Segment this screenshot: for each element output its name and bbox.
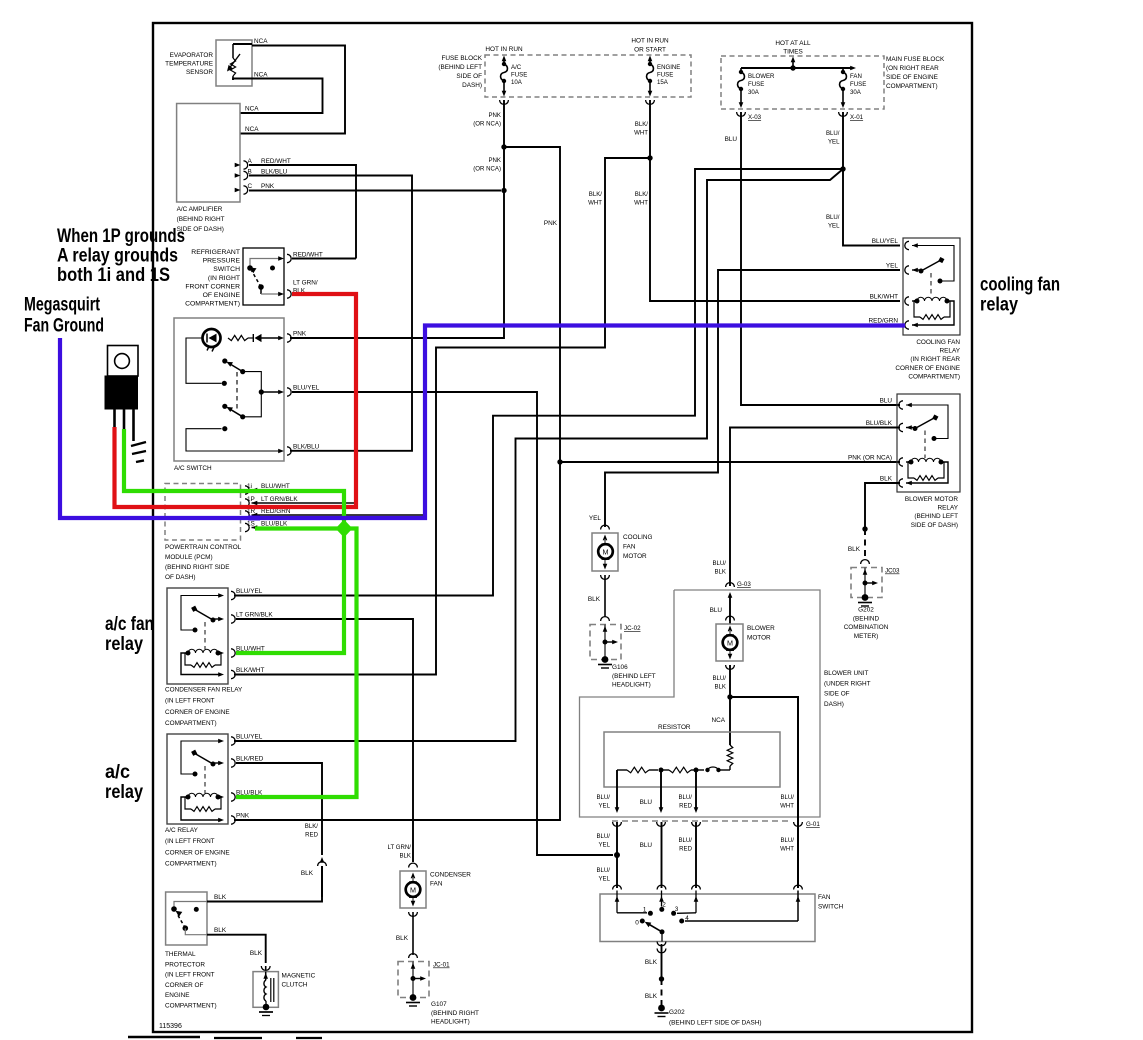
svg-text:A/C AMPLIFIER: A/C AMPLIFIER: [177, 206, 223, 213]
label PNK (OR NCA) at blower relay pin: [848, 455, 892, 462]
transistor legs: [115, 409, 134, 441]
junction blower return: [727, 694, 732, 699]
svg-text:COOLING FAN: COOLING FAN: [916, 339, 960, 346]
svg-text:BLK: BLK: [645, 993, 658, 1000]
wires taps to fan switch: [617, 822, 696, 888]
blower motor bottom connector: [726, 665, 735, 745]
label ENGINE FUSE 15A: [657, 64, 680, 86]
svg-text:BLK/BLU: BLK/BLU: [261, 169, 288, 176]
joint connector JC03: [851, 560, 900, 598]
label PNK at A/C relay: [236, 813, 250, 820]
svg-text:JC03: JC03: [885, 568, 900, 575]
fan switch input connectors: [613, 885, 803, 889]
magnetic clutch box: [253, 972, 278, 1008]
svg-text:NCA: NCA: [245, 106, 259, 113]
label BLOWER UNIT (UNDER RIGHT SIDE OF DASH): [824, 670, 871, 708]
wire BLU/YEL X-01 to cooling fan relay: [843, 112, 900, 246]
A/C fuse 10A: [501, 62, 508, 83]
svg-text:0: 0: [635, 920, 639, 927]
svg-text:G-01: G-01: [806, 821, 820, 828]
A/C relay pin BLU/BLK: [218, 793, 235, 801]
svg-text:OF DASH): OF DASH): [165, 574, 196, 581]
svg-text:BLK: BLK: [714, 684, 726, 691]
svg-text:(IN LEFT FRONT: (IN LEFT FRONT: [165, 698, 215, 705]
svg-text:(IN RIGHT REAR: (IN RIGHT REAR: [910, 356, 960, 363]
wire BLU/YEL branch 1 to condenser fan relay: [234, 169, 843, 596]
svg-text:COMBINATION: COMBINATION: [844, 624, 889, 631]
label BLU/YEL at condenser fan relay: [236, 588, 263, 595]
connector G-03: [726, 581, 752, 588]
svg-text:BLK: BLK: [399, 853, 411, 860]
magnetic clutch connector: [261, 966, 270, 972]
svg-text:BLK: BLK: [714, 569, 726, 576]
label BLOWER MOTOR RELAY (BEHIND LEFT SIDE OF DASH): [905, 496, 959, 529]
green junction diamond: [336, 520, 353, 538]
svg-text:LT GRN/BLK: LT GRN/BLK: [261, 496, 298, 503]
label A/C RELAY (IN LEFT FRONT CORNER OF ENGINE COMPARTMENT): [165, 827, 230, 868]
svg-text:(BEHIND LEFT SIDE OF DASH): (BEHIND LEFT SIDE OF DASH): [669, 1020, 762, 1027]
label MAGNETIC CLUTCH: [282, 973, 316, 989]
svg-text:(UNDER RIGHT: (UNDER RIGHT: [824, 680, 871, 687]
svg-text:(OR NCA): (OR NCA): [473, 121, 501, 128]
junction BLK/WHT branch: [647, 155, 652, 160]
magnetic clutch ground: [259, 1012, 273, 1016]
svg-text:G202: G202: [669, 1009, 685, 1016]
svg-text:BLK/BLU: BLK/BLU: [293, 444, 320, 451]
fan switch rotary wiper: [640, 919, 665, 935]
svg-text:WHT: WHT: [634, 130, 648, 137]
svg-text:COMPARTMENT): COMPARTMENT): [165, 1003, 217, 1010]
label PNK (vertical run): [544, 220, 558, 227]
label NCA (amp pin 1): [245, 106, 259, 113]
junction A/C switch feed tap: [614, 852, 620, 858]
svg-text:(BEHIND RIGHT SIDE: (BEHIND RIGHT SIDE: [165, 564, 230, 571]
svg-text:FUSE: FUSE: [511, 72, 527, 79]
red overlay wire: pressure switch LT GRN/BLK to PCM 1P and transistor: [115, 294, 357, 507]
svg-text:(BEHIND LEFT: (BEHIND LEFT: [914, 513, 958, 520]
wire LT GRN/BLK condenser fan relay to condenser fan: [236, 619, 413, 862]
wire BLU/BLK blower relay to blower motor G-03: [730, 428, 900, 587]
wire PNK from A/C fuse down to A/C switch: [290, 100, 504, 338]
svg-text:Fan Ground: Fan Ground: [24, 315, 104, 337]
label NCA (ETS top): [254, 38, 268, 45]
junction PNK amp pin C: [501, 188, 506, 193]
engine fuse 15A: [647, 62, 654, 83]
svg-text:BLK: BLK: [250, 950, 263, 957]
PCM pin 1S: [245, 523, 257, 531]
cooling fan relay pin RED/GRN: [905, 321, 918, 329]
A/C amplifier box: [177, 104, 240, 203]
svg-text:OF ENGINE: OF ENGINE: [203, 292, 241, 299]
svg-text:BLU/: BLU/: [780, 794, 794, 801]
pressure switch pin RED/WHT: [278, 254, 291, 262]
svg-text:BLU/: BLU/: [780, 837, 794, 844]
blower motor relay box: [897, 394, 960, 492]
svg-text:A/C RELAY: A/C RELAY: [165, 827, 199, 834]
svg-text:SWITCH: SWITCH: [818, 904, 844, 911]
wire BLK/BLU amp pin B to A/C switch: [249, 176, 412, 451]
svg-text:BLK: BLK: [214, 894, 227, 901]
ground G106: [598, 656, 656, 689]
label BLU/BLK at A/C relay: [236, 790, 263, 797]
A/C switch internal wiring and contacts: [186, 338, 281, 451]
label POWERTRAIN CONTROL MODULE (PCM) (BEHIND RIGHT SIDE OF DASH): [165, 544, 242, 581]
label BLU/YEL at A/C switch: [293, 385, 320, 392]
refrigerant pressure switch box: [243, 248, 284, 305]
wire BLU/YEL A/C switch to fan switch tap: [292, 392, 613, 855]
svg-text:YEL: YEL: [598, 803, 610, 810]
wire BLU/WHT direct tap to fan switch: [730, 697, 798, 888]
label FUSE BLOCK (BEHIND LEFT SIDE OF DASH): [438, 55, 482, 89]
annotation: When 1P grounds A relay grounds both 1i and 1S: [57, 225, 185, 286]
label RED/WHT at pressure switch: [293, 252, 323, 259]
A/C relay pin BLU/YEL: [218, 737, 235, 745]
svg-text:BLU/: BLU/: [712, 560, 726, 567]
svg-text:ENGINE: ENGINE: [165, 992, 190, 999]
svg-text:POWERTRAIN CONTROL: POWERTRAIN CONTROL: [165, 544, 242, 551]
label CONDENSER FAN: [430, 872, 471, 888]
connector X-01: [839, 89, 864, 121]
label BLU/YEL upper: [826, 130, 840, 146]
label BLK/BLU at A/C switch: [293, 444, 320, 451]
svg-text:BLOWER MOTOR: BLOWER MOTOR: [905, 496, 959, 503]
A/C relay box: [167, 734, 228, 824]
blower motor M symbol: [723, 626, 738, 660]
svg-text:HOT IN RUN: HOT IN RUN: [631, 38, 669, 45]
scan tick marks bottom left: [128, 1037, 322, 1038]
svg-text:COMPARTMENT): COMPARTMENT): [886, 83, 938, 90]
label pin C PNK: [248, 183, 275, 190]
svg-text:TEMPERATURE: TEMPERATURE: [165, 61, 213, 68]
svg-text:BLK/WHT: BLK/WHT: [236, 667, 265, 674]
green overlay wire: transistor to PCM 1i and condenser fan relay BLU/WHT: [124, 429, 344, 653]
A/C switch pin BLK/BLU: [278, 447, 291, 455]
svg-text:FAN: FAN: [430, 881, 443, 888]
svg-text:(BEHIND: (BEHIND: [853, 615, 880, 622]
thermal protector internals switch: [171, 902, 207, 935]
svg-text:PRESSURE: PRESSURE: [203, 258, 241, 265]
transistor unconnected pin hatch marks: [131, 442, 146, 462]
label 1S BLU/BLK: [247, 521, 288, 528]
label BLK (fan switch output): [645, 959, 658, 966]
svg-text:BLK/: BLK/: [635, 121, 649, 128]
svg-text:BLU/: BLU/: [678, 794, 692, 801]
svg-text:BLK: BLK: [645, 959, 658, 966]
wire NCA from ETS top to A/C amplifier pin 2: [233, 44, 345, 134]
wire PNK amp pin C to fuse feed node: [249, 190, 501, 192]
svg-text:BLU/: BLU/: [826, 214, 840, 221]
svg-text:PNK: PNK: [488, 112, 501, 119]
svg-text:PNK: PNK: [544, 220, 558, 227]
svg-text:1P: 1P: [247, 496, 255, 503]
svg-text:THERMAL: THERMAL: [165, 951, 196, 958]
condenser fan bottom connector: [409, 912, 418, 955]
svg-text:G-03: G-03: [737, 581, 751, 588]
condenser fan relay internals (switch and coil): [181, 596, 221, 675]
svg-text:BLU: BLU: [725, 136, 738, 143]
label COOLING FAN MOTOR: [623, 534, 653, 560]
blower unit outline box: [580, 590, 821, 817]
svg-text:MAIN FUSE BLOCK: MAIN FUSE BLOCK: [886, 56, 945, 63]
svg-text:(BEHIND LEFT: (BEHIND LEFT: [612, 673, 656, 680]
svg-text:DASH): DASH): [462, 82, 482, 89]
powertrain control module PCM dashed box: [165, 484, 241, 541]
A/C relay pin BLK/RED: [218, 759, 235, 767]
svg-text:RED: RED: [305, 832, 318, 839]
svg-text:MOTOR: MOTOR: [747, 635, 771, 642]
svg-text:SIDE OF: SIDE OF: [824, 691, 850, 698]
svg-text:BLU: BLU: [640, 842, 653, 849]
junction BLU/YEL branches: [840, 166, 845, 171]
wire BLK/WHT engine fuse to cooling fan relay: [650, 100, 900, 301]
svg-text:FAN: FAN: [818, 894, 831, 901]
svg-text:FUSE: FUSE: [657, 72, 673, 79]
svg-text:X-03: X-03: [748, 114, 762, 121]
svg-text:SIDE OF ENGINE: SIDE OF ENGINE: [886, 74, 938, 81]
resistor series chain: [617, 767, 730, 773]
svg-text:BLU/: BLU/: [596, 833, 610, 840]
blower fuse 30A: [738, 68, 745, 91]
svg-text:10A: 10A: [511, 79, 523, 86]
svg-text:CORNER OF ENGINE: CORNER OF ENGINE: [895, 365, 960, 372]
label BLK (below splice): [645, 993, 658, 1000]
A/C switch pin PNK: [278, 334, 291, 342]
svg-text:(IN LEFT FRONT: (IN LEFT FRONT: [165, 838, 215, 845]
svg-text:NCA: NCA: [712, 717, 726, 724]
svg-text:BLK: BLK: [588, 596, 601, 603]
svg-text:CORNER OF: CORNER OF: [165, 982, 203, 989]
svg-text:PNK: PNK: [236, 813, 250, 820]
svg-text:WHT: WHT: [780, 846, 794, 853]
svg-text:M: M: [727, 639, 733, 648]
svg-text:CLUTCH: CLUTCH: [282, 982, 308, 989]
svg-text:BLU/YEL: BLU/YEL: [236, 734, 263, 741]
svg-text:cooling fan: cooling fan: [980, 274, 1060, 296]
svg-text:relay: relay: [105, 781, 143, 803]
evaporator temperature sensor ETS box: [216, 40, 252, 86]
label CONDENSER FAN RELAY (IN LEFT FRONT CORNER OF ENGINE COMPARTMENT): [165, 687, 243, 728]
label 1i BLU/WHT: [247, 483, 290, 490]
ground G202 behind combination meter: [844, 594, 889, 640]
annotation: a/c fan relay: [105, 613, 154, 655]
blue overlay wire: Megasquirt fan ground to PCM 1R and cooling fan relay RED/GRN: [60, 326, 905, 521]
junction PNK to blower motor relay: [557, 459, 562, 464]
svg-text:BLK/: BLK/: [305, 823, 319, 830]
label A/C AMPLIFIER (BEHIND RIGHT SIDE OF DASH): [177, 206, 225, 233]
svg-text:NCA: NCA: [254, 72, 268, 79]
figure number 115396: [159, 1023, 182, 1030]
label YEL (vertical run): [589, 515, 602, 522]
label pin A RED/WHT: [248, 158, 291, 165]
svg-text:FUSE BLOCK: FUSE BLOCK: [442, 55, 483, 62]
label 1R RED/GRN: [247, 508, 291, 515]
A/C fuse output connector: [500, 81, 509, 104]
svg-text:RELAY: RELAY: [938, 505, 959, 512]
label BLK (cooling fan motor): [588, 596, 601, 603]
label pin B BLK/BLU: [248, 169, 288, 176]
label BLU/WHT at condenser fan relay: [236, 646, 265, 653]
svg-text:1: 1: [643, 907, 647, 914]
label BLK/WHT right branch: [634, 191, 648, 207]
cooling fan motor connector top: [601, 525, 610, 529]
labels wire colors below G-01: [596, 833, 794, 853]
svg-text:LT GRN/BLK: LT GRN/BLK: [236, 612, 273, 619]
svg-text:REFRIGERANT: REFRIGERANT: [191, 249, 240, 256]
inline connector on BLK/RED wire: [318, 857, 327, 897]
svg-text:BLOWER: BLOWER: [748, 73, 775, 80]
svg-text:MODULE (PCM): MODULE (PCM): [165, 554, 213, 561]
label BLK/WHT left branch: [588, 191, 602, 207]
svg-text:DASH): DASH): [824, 701, 844, 708]
cooling fan relay pin BLU/YEL: [905, 241, 918, 249]
svg-text:M: M: [410, 886, 416, 895]
svg-text:PNK: PNK: [261, 183, 275, 190]
label BLU/YEL at A/C relay: [236, 734, 263, 741]
svg-text:WHT: WHT: [634, 200, 648, 207]
fan switch contact wiring: [615, 891, 801, 924]
label BLU/YEL below junction: [596, 867, 610, 883]
wire BLU/YEL branch 2 to A/C relay (with diagonal tap): [234, 169, 843, 741]
svg-text:BLK/WHT: BLK/WHT: [870, 294, 899, 301]
svg-text:ENGINE: ENGINE: [657, 64, 680, 71]
svg-text:BLU: BLU: [880, 398, 893, 405]
label BLK (blower relay ground wire): [848, 546, 861, 553]
label NCA (ETS bottom): [254, 72, 268, 79]
svg-text:PNK: PNK: [293, 331, 307, 338]
label PNK (OR NCA) lower: [473, 157, 501, 173]
fan fuse 30A: [840, 68, 847, 91]
label BLK/WHT at relay pin: [870, 294, 899, 301]
svg-text:BLU/YEL: BLU/YEL: [293, 385, 320, 392]
ground G107: [406, 994, 479, 1026]
thermal protector box: [166, 892, 207, 945]
main fuse block dashed box: [721, 56, 884, 109]
label LT GRN/BLK at condenser fan relay: [236, 612, 273, 619]
condenser fan relay pin BLU/YEL: [218, 591, 235, 599]
joint connector JC-01: [398, 954, 450, 998]
label BLK (clutch feed): [250, 950, 263, 957]
amp pin C arc and arrow: [235, 186, 248, 194]
svg-text:JC-02: JC-02: [624, 625, 641, 632]
svg-text:G107: G107: [431, 1001, 447, 1008]
label BLOWER MOTOR: [747, 625, 775, 642]
svg-text:B: B: [248, 169, 252, 176]
wire BLK/WHT branch to condenser fan relay: [234, 158, 650, 675]
svg-text:EVAPORATOR: EVAPORATOR: [170, 52, 214, 59]
label FAN FUSE 30A: [850, 73, 866, 96]
annotation: cooling fan relay: [980, 274, 1060, 316]
wire PCM pin rows (black under overlays): [252, 490, 426, 528]
svg-text:YEL: YEL: [598, 876, 610, 883]
wire BLK thermal protector to magnetic clutch: [207, 935, 266, 963]
bus wire inside main fuse block: [741, 65, 856, 70]
resistor tap BLU/RED: [694, 770, 699, 813]
svg-text:RED/WHT: RED/WHT: [261, 158, 291, 165]
pressure switch pin LT GRN/BLK: [278, 290, 291, 298]
svg-text:BLU/BLK: BLU/BLK: [866, 420, 893, 427]
cooling fan motor bottom connector: [601, 575, 610, 617]
label BLK/RED at A/C relay: [236, 756, 264, 763]
svg-text:YEL: YEL: [598, 842, 610, 849]
ground G202 behind left side of dash: [655, 1005, 762, 1027]
condenser fan connector top: [409, 863, 418, 867]
wire RED/WHT pressure switch row: [292, 258, 356, 260]
fan switch box: [600, 894, 815, 942]
svg-text:WHT: WHT: [588, 200, 602, 207]
label RED/GRN at relay pin: [869, 318, 899, 325]
thermistor symbol inside ETS: [227, 44, 240, 80]
svg-text:A: A: [248, 158, 253, 165]
condenser fan relay pin LT GRN/BLK: [218, 615, 235, 623]
label BLK thermal protector feed: [301, 870, 314, 877]
PCM pin 1i: [245, 486, 257, 494]
svg-text:2: 2: [662, 902, 666, 909]
svg-text:COMPARTMENT): COMPARTMENT): [165, 720, 217, 727]
svg-text:X-01: X-01: [850, 114, 864, 121]
svg-text:BLK: BLK: [880, 476, 893, 483]
blower motor relay internals (switch and coil): [906, 405, 948, 483]
svg-text:CONDENSER FAN RELAY: CONDENSER FAN RELAY: [165, 687, 243, 694]
junction PNK fuse branch: [501, 144, 506, 149]
label PNK at A/C switch: [293, 331, 307, 338]
magnetic clutch coil: [263, 972, 274, 1011]
fan switch common output: [657, 932, 666, 979]
label BLU/YEL lower: [826, 214, 840, 230]
svg-text:FUSE: FUSE: [850, 81, 866, 88]
svg-text:BLU/: BLU/: [826, 130, 840, 137]
svg-text:JC-01: JC-01: [433, 962, 450, 969]
svg-text:BLOWER: BLOWER: [747, 625, 775, 632]
svg-text:both 1i and 1S: both 1i and 1S: [57, 264, 170, 286]
svg-text:3: 3: [675, 906, 679, 913]
svg-text:METER): METER): [854, 633, 879, 640]
svg-text:OR START: OR START: [634, 47, 666, 54]
label BLK/WHT at condenser fan relay: [236, 667, 265, 674]
PCM pin 1P: [245, 499, 257, 507]
svg-text:BLK/RED: BLK/RED: [236, 756, 264, 763]
resistor tap BLU: [659, 770, 664, 813]
label BLU at blower relay pin: [880, 398, 893, 405]
wire YEL cooling fan relay to cooling fan motor: [605, 270, 900, 527]
power source HOT AT ALL TIMES: [775, 40, 811, 68]
label BLK/RED (vertical run): [305, 823, 319, 839]
svg-text:TIMES: TIMES: [783, 49, 803, 56]
connector X-03: [737, 89, 762, 121]
svg-text:BLU: BLU: [710, 607, 723, 614]
fuse block dashed box: [485, 55, 691, 97]
svg-text:BLK: BLK: [848, 546, 861, 553]
svg-text:BLK/: BLK/: [589, 191, 603, 198]
svg-text:YEL: YEL: [828, 223, 840, 230]
svg-text:FUSE: FUSE: [748, 81, 764, 88]
label BLU/YEL at relay pin: [872, 238, 899, 245]
label YEL at relay pin: [886, 263, 899, 270]
label LT GRN/BLK at pressure switch: [293, 280, 318, 295]
svg-text:(IN LEFT FRONT: (IN LEFT FRONT: [165, 972, 215, 979]
label BLK (condenser fan ground wire): [396, 935, 409, 942]
svg-text:(BEHIND RIGHT: (BEHIND RIGHT: [431, 1010, 479, 1017]
label PNK (OR NCA) upper: [473, 112, 501, 128]
svg-text:CONDENSER: CONDENSER: [430, 872, 471, 879]
wire PNK branch to blower motor relay and A/C relay: [234, 147, 560, 820]
green overlay wire: PCM 1S to A/C relay BLU/BLK: [236, 529, 357, 798]
svg-text:RED: RED: [679, 846, 692, 853]
wire NCA from ETS bottom to A/C amplifier pin 1: [233, 79, 323, 114]
svg-text:4: 4: [685, 915, 689, 922]
svg-text:COMPARTMENT): COMPARTMENT): [908, 373, 960, 380]
svg-text:BLU/: BLU/: [712, 675, 726, 682]
svg-text:BLOWER UNIT: BLOWER UNIT: [824, 670, 868, 677]
